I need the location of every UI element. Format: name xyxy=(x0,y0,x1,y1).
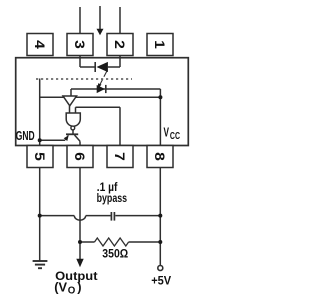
svg-text:CC: CC xyxy=(170,130,180,142)
svg-text:GND: GND xyxy=(16,129,35,143)
svg-text:5: 5 xyxy=(31,152,46,161)
svg-text:7: 7 xyxy=(111,152,126,161)
svg-text:bypass: bypass xyxy=(97,193,128,205)
svg-text:4: 4 xyxy=(31,40,46,49)
svg-text:8: 8 xyxy=(151,152,166,161)
svg-text:1: 1 xyxy=(151,40,166,49)
svg-text:): ) xyxy=(77,280,81,295)
svg-text:6: 6 xyxy=(71,152,86,161)
svg-text:(V: (V xyxy=(54,280,67,295)
svg-text:2: 2 xyxy=(111,40,126,49)
svg-text:+5V: +5V xyxy=(151,275,171,287)
svg-text:3: 3 xyxy=(71,40,86,49)
svg-text:V: V xyxy=(164,126,170,140)
svg-text:O: O xyxy=(68,285,76,296)
svg-text:350Ω: 350Ω xyxy=(102,248,128,261)
